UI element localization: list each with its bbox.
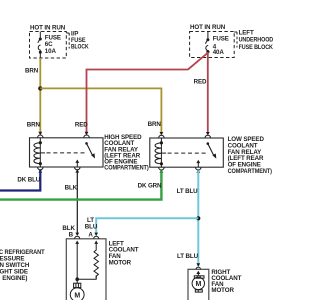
svg-text:RED: RED <box>194 78 207 85</box>
pin arrowhead BRN into relay <box>160 132 164 135</box>
svg-text:BRN: BRN <box>27 121 41 128</box>
wire BRN vertical from I/P fuse <box>39 58 41 134</box>
pin bump top switch <box>205 135 211 138</box>
pin bump bottom coil <box>159 167 165 170</box>
svg-text:HOT IN RUN: HOT IN RUN <box>30 25 66 32</box>
svg-text:UNDERHOOD: UNDERHOOD <box>239 37 274 44</box>
pin B inner arrow <box>76 243 78 249</box>
wire LT BLU branch to left fan motor <box>96 218 198 235</box>
svg-text:BLK: BLK <box>65 184 78 191</box>
pin bump bottom switch <box>196 167 202 170</box>
pin arrowhead LT BLU into right motor <box>196 263 200 266</box>
pin arrowhead BLK out of relay <box>75 169 79 172</box>
svg-text:FUSE BLOCK: FUSE BLOCK <box>239 44 274 51</box>
svg-text:LT BLU: LT BLU <box>177 188 199 195</box>
resistor inside motor <box>94 248 98 278</box>
junction splice on BRN <box>38 86 42 90</box>
wire DK BLU from high speed relay coil to left edge <box>0 170 40 191</box>
dashed actuate line <box>168 152 206 154</box>
dashed actuate line <box>47 152 85 154</box>
svg-text:RED: RED <box>75 121 88 128</box>
junction splice inside motor <box>75 277 79 281</box>
relay coil (high speed) <box>34 138 45 167</box>
fuse F2 4 symbol <box>206 32 209 51</box>
pin bump top coil <box>38 135 44 138</box>
svg-text:10A: 10A <box>45 48 57 55</box>
pin arrowhead RED into relay <box>206 132 210 135</box>
wire LT BLU from low speed relay to right fan motor <box>197 170 199 266</box>
svg-text:COMPARTMENT): COMPARTMENT) <box>104 165 148 172</box>
fuse F1 5C symbol <box>38 32 41 59</box>
fuse block box (I/P, dashed) <box>30 32 67 59</box>
pin arrowhead LT BLU out of relay <box>196 170 200 173</box>
pin bump top switch <box>84 135 90 138</box>
svg-text:ENGINE): ENGINE) <box>2 275 27 282</box>
svg-text:FUSE: FUSE <box>213 35 229 42</box>
wire BLK from high speed relay switch to left fan motor <box>76 170 78 235</box>
right coolant fan motor box M2 <box>188 269 209 300</box>
svg-text:BLOCK: BLOCK <box>71 44 89 51</box>
pin arrowhead DK GRN out of relay <box>160 170 164 173</box>
pin A inner arrow <box>95 243 97 249</box>
relay switch blade (high speed) <box>85 142 88 145</box>
I/P fuse block name bracket <box>66 32 69 34</box>
svg-text:A: A <box>88 232 93 239</box>
wire inside motor from pin B <box>76 248 78 279</box>
svg-text:MOTOR: MOTOR <box>109 260 132 267</box>
svg-text:LEFT: LEFT <box>239 29 254 36</box>
pin inner arrow <box>197 273 199 276</box>
relay fixed contact arrow <box>197 162 199 168</box>
svg-text:BRN: BRN <box>25 67 39 74</box>
svg-text:DK BLU: DK BLU <box>17 177 40 184</box>
low speed relay box U2 <box>150 138 224 167</box>
svg-text:MOTOR: MOTOR <box>211 287 234 294</box>
pin arrowhead BRN into relay <box>38 132 42 135</box>
svg-text:B: B <box>69 232 74 239</box>
svg-text:40A: 40A <box>213 49 225 56</box>
relay coil (low speed) <box>155 138 166 167</box>
left coolant fan motor box M1 <box>66 239 106 300</box>
svg-text:LT BLU: LT BLU <box>177 253 199 260</box>
svg-text:COMPARTMENT): COMPARTMENT) <box>228 168 272 175</box>
svg-text:M: M <box>74 292 80 299</box>
pin bump bottom switch <box>75 167 81 170</box>
motor M1 symbol <box>76 279 78 283</box>
left underhood fuse block name bracket <box>234 31 237 33</box>
pin arrowhead RED into relay <box>85 132 89 135</box>
pin arrowhead LT BLU into left motor <box>94 233 98 236</box>
pin bump bottom coil <box>38 167 44 170</box>
relay fixed contact arrow <box>76 162 78 168</box>
svg-text:BLU: BLU <box>85 224 98 231</box>
svg-text:BRN: BRN <box>148 121 162 128</box>
fuse block box (left underhood, dashed) <box>190 32 235 58</box>
wire RED branch diagonal + horizontal to high speed relay <box>87 53 208 135</box>
wire RED from underhood fuse down to low speed relay <box>207 52 209 135</box>
pin arrowhead DK BLU out of relay <box>38 169 42 172</box>
motor M2 symbol <box>192 276 204 292</box>
wire connecting resistor to splice <box>77 275 96 279</box>
wire DK GRN from low speed relay coil to left edge <box>0 170 161 199</box>
svg-text:M: M <box>196 281 202 288</box>
pin bump A <box>94 236 99 239</box>
pin bump right motor <box>196 267 200 269</box>
wire BRN branch horizontal to low speed relay <box>40 88 161 134</box>
pin bump top coil <box>159 135 165 138</box>
pin arrowhead BLK into motor <box>75 233 79 236</box>
junction splice on LT BLU <box>196 216 200 220</box>
svg-text:DK GRN: DK GRN <box>138 182 162 189</box>
pin bump B <box>75 236 80 239</box>
relay switch blade (low speed) <box>207 142 210 145</box>
high speed relay box U1 <box>30 138 104 167</box>
svg-text:HOT IN RUN: HOT IN RUN <box>190 24 226 31</box>
